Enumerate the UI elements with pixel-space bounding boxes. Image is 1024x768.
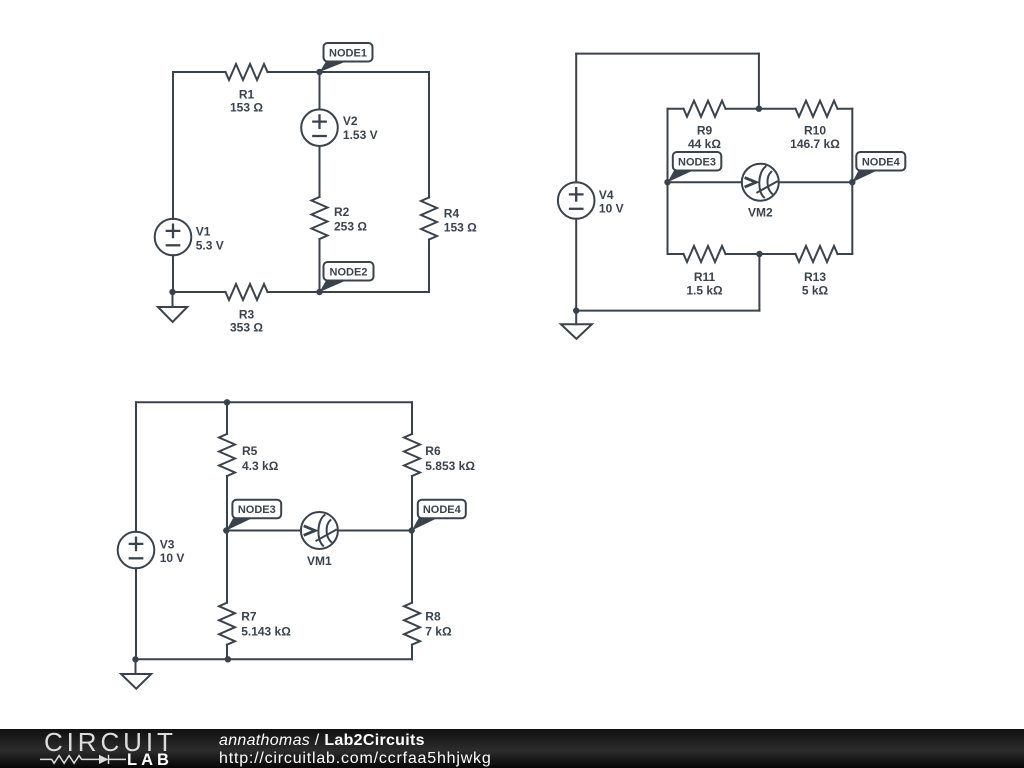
svg-text:253 Ω: 253 Ω — [334, 220, 367, 234]
wire: circuit3 middle left (NODE3 to VM1) — [227, 530, 301, 532]
junction: circuit2 ground corner dot — [573, 307, 579, 313]
svg-text:R10: R10 — [804, 123, 826, 137]
wire: R5 bottom to NODE3 — [226, 476, 228, 531]
resistor R6 — [404, 434, 420, 476]
svg-text:R9: R9 — [697, 123, 713, 137]
node label NODE4 (circuit2) — [852, 152, 905, 182]
wire: circuit1 bottom rail left segment — [173, 291, 226, 293]
svg-text:R13: R13 — [804, 270, 826, 284]
wire: R7 bottom to bottom rail — [226, 645, 228, 660]
wire: circuit2 V4 top to top rail — [575, 54, 577, 183]
svg-text:44 kΩ: 44 kΩ — [688, 137, 721, 151]
junction: circuit3 bottom middle dot — [225, 656, 231, 662]
wire: circuit1 right vertical lower — [428, 240, 430, 293]
resistor R13 — [796, 246, 838, 262]
resistor R5 — [219, 434, 235, 476]
footer bar — [0, 729, 1024, 768]
svg-text:R2: R2 — [334, 205, 350, 219]
svg-text:353 Ω: 353 Ω — [230, 321, 263, 335]
wire: bridge bottom right segment — [838, 253, 853, 255]
wire: circuit2 V4 bottom to bottom rail — [575, 219, 577, 311]
label R2 value — [334, 205, 367, 234]
junction: circuit3 bottom left dot — [132, 656, 138, 662]
wire: circuit2 top rail — [576, 53, 759, 55]
wire: circuit3 right branch top — [411, 402, 413, 434]
svg-text:10 V: 10 V — [160, 551, 185, 565]
wire: circuit3 top rail — [136, 401, 412, 403]
resistor R1 — [226, 64, 268, 80]
wire: circuit2 top feed down to bridge — [758, 54, 760, 109]
node label NODE2 — [320, 262, 374, 292]
junction: circuit3 top rail dot — [224, 399, 230, 405]
svg-text:R7: R7 — [241, 610, 257, 624]
wire: circuit3 middle branch top — [226, 402, 228, 434]
ground circuit2 — [561, 311, 592, 339]
wire: bridge right vertical — [851, 109, 853, 254]
svg-text:NODE4: NODE4 — [423, 504, 462, 516]
voltage source V2 — [301, 109, 338, 146]
junction node NODE4 dot (circuit2) — [849, 179, 855, 185]
wire: R2 bottom to NODE2 — [319, 239, 321, 292]
svg-text:5.3 V: 5.3 V — [196, 239, 224, 253]
voltage source V1 — [155, 219, 192, 256]
wire: V2 bottom to R2 top — [319, 146, 321, 197]
resistor R8 — [404, 603, 420, 645]
svg-text:VM1: VM1 — [307, 554, 332, 568]
svg-text:R6: R6 — [425, 444, 441, 458]
junction node NODE1 dot — [316, 69, 322, 75]
resistor R10 — [796, 101, 838, 117]
node label NODE3 (circuit3) — [226, 500, 281, 531]
wire: circuit3 left vertical upper — [135, 402, 137, 531]
svg-text:5.143 kΩ: 5.143 kΩ — [241, 624, 291, 638]
label R4 value — [444, 206, 477, 234]
wire: circuit3 left vertical lower — [135, 568, 137, 659]
junction: circuit2 bottom stem dot — [756, 251, 762, 257]
voltmeter VM1 — [301, 512, 338, 549]
label R10 value — [790, 123, 840, 151]
wire: NODE1 to V2 top — [319, 72, 321, 110]
svg-text:R8: R8 — [425, 610, 441, 624]
svg-text:R3: R3 — [239, 307, 255, 321]
wire: bridge middle right (VM2 to NODE4) — [779, 181, 853, 183]
svg-text:R1: R1 — [239, 87, 255, 101]
wire: bridge bottom middle segment — [726, 253, 796, 255]
wire: bridge bottom stem down — [758, 254, 760, 311]
label V4 value — [599, 188, 624, 215]
svg-text:NODE1: NODE1 — [329, 47, 367, 59]
wire: bridge middle left (NODE3 to VM2) — [668, 181, 742, 183]
label R13 value — [802, 270, 829, 298]
label R3 value — [230, 307, 263, 334]
wire: NODE4 to R8 top — [411, 531, 413, 603]
label R8 value — [425, 610, 452, 639]
resistor R2 — [312, 197, 328, 239]
wire: circuit1 top rail left segment — [173, 71, 226, 73]
label V1 value — [196, 224, 224, 252]
svg-text:R11: R11 — [694, 270, 716, 284]
node label NODE3 (circuit2) — [668, 152, 722, 182]
wire: circuit1 top rail right segment (through NODE1 to right branch) — [268, 71, 430, 73]
svg-text:http://circuitlab.com/ccrfaa5h: http://circuitlab.com/ccrfaa5hhjwkg — [219, 750, 492, 767]
junction: circuit1 ground corner — [169, 289, 175, 295]
voltmeter VM2 — [742, 164, 779, 201]
svg-text:annathomas / Lab2Circuits: annathomas / Lab2Circuits — [219, 732, 425, 749]
resistor R11 — [684, 246, 726, 262]
svg-text:5 kΩ: 5 kΩ — [802, 284, 829, 298]
svg-text:146.7 kΩ: 146.7 kΩ — [790, 137, 840, 151]
svg-text:R5: R5 — [242, 444, 258, 458]
wire: R8 bottom to bottom rail — [411, 645, 413, 660]
svg-text:LAB: LAB — [127, 751, 173, 768]
svg-text:5.853 kΩ: 5.853 kΩ — [425, 459, 475, 473]
wire: circuit1 left vertical bottom (V1 bottom to bottom rail) — [172, 255, 174, 292]
resistor R3 — [226, 284, 268, 300]
wire: circuit1 bottom rail right segment — [268, 291, 430, 293]
junction: circuit2 top feed dot — [756, 106, 762, 112]
voltage source V4 — [558, 182, 595, 219]
wire: bridge left vertical — [667, 109, 669, 254]
junction node NODE3 dot (circuit3) — [223, 527, 229, 533]
svg-text:V3: V3 — [160, 537, 175, 551]
label R7 value — [241, 610, 291, 639]
svg-text:7 kΩ: 7 kΩ — [425, 624, 452, 638]
logo schematic line (resistor + diode) — [40, 755, 126, 764]
junction node NODE3 dot (circuit2) — [664, 179, 670, 185]
node label NODE1 — [320, 43, 373, 72]
svg-text:NODE4: NODE4 — [862, 156, 901, 168]
svg-text:4.3 kΩ: 4.3 kΩ — [242, 459, 279, 473]
svg-text:VM2: VM2 — [748, 205, 773, 219]
label V3 value — [160, 537, 185, 564]
label R1 value — [230, 87, 263, 114]
svg-text:V2: V2 — [343, 114, 358, 128]
ground circuit3 — [121, 659, 151, 688]
resistor R4 — [421, 198, 437, 240]
svg-text:V4: V4 — [599, 188, 614, 202]
wire: bridge top left segment — [668, 108, 684, 110]
wire: circuit1 right vertical upper — [428, 72, 430, 198]
label R5 value — [242, 444, 279, 473]
wire: circuit1 left vertical top (V1 top to top rail) — [172, 72, 174, 219]
svg-text:NODE2: NODE2 — [330, 266, 368, 278]
svg-text:1.5 kΩ: 1.5 kΩ — [686, 284, 723, 298]
svg-text:153 Ω: 153 Ω — [444, 220, 477, 234]
wire: circuit3 bottom rail — [136, 658, 413, 660]
wire: circuit3 middle right (VM1 to NODE4) — [338, 530, 412, 532]
resistor R7 — [219, 603, 235, 645]
junction node NODE2 dot — [316, 289, 322, 295]
svg-text:NODE3: NODE3 — [678, 156, 716, 168]
junction node NODE4 dot (circuit3) — [409, 527, 415, 533]
wire: bridge bottom left segment — [668, 253, 684, 255]
ground circuit1 — [158, 292, 187, 322]
node label NODE4 (circuit3) — [412, 500, 466, 531]
wire: NODE3 to R7 top — [226, 531, 228, 603]
svg-text:1.53 V: 1.53 V — [343, 128, 378, 142]
voltage source V3 — [118, 532, 155, 569]
wire: bridge top right segment — [838, 108, 853, 110]
wire: R6 bottom to NODE4 — [411, 476, 413, 531]
svg-text:153 Ω: 153 Ω — [230, 101, 263, 115]
wire: bridge top middle segment — [726, 108, 796, 110]
label V2 value — [343, 114, 378, 142]
svg-text:R4: R4 — [444, 206, 460, 220]
svg-text:10 V: 10 V — [599, 201, 624, 215]
label R11 value — [686, 270, 723, 298]
svg-text:V1: V1 — [196, 224, 211, 238]
resistor R9 — [684, 101, 726, 117]
svg-text:NODE3: NODE3 — [238, 504, 276, 516]
label R6 value — [425, 444, 475, 473]
wire: circuit2 bottom rail — [576, 310, 759, 312]
label R9 value — [688, 123, 721, 151]
